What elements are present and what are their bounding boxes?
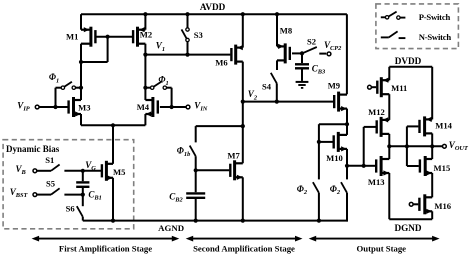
- wire M10 source lead: [346, 149, 348, 166]
- wire M12 gate riser: [363, 127, 365, 166]
- label AGND: [158, 223, 184, 233]
- terminal VB: [33, 169, 37, 173]
- wire tail riser: [112, 125, 114, 164]
- switch phi1b: [190, 146, 196, 157]
- second stage arrow: [186, 236, 303, 242]
- node M5-AGND junction: [111, 219, 115, 223]
- wire phi1b lower lead: [195, 156, 197, 170]
- switch S2: [304, 47, 327, 54]
- wire CB3 upper lead: [301, 53, 303, 63]
- svg-text:P-Switch: P-Switch: [419, 12, 451, 22]
- output stage arrow: [309, 236, 440, 242]
- label N-Switch: [419, 32, 452, 42]
- node phi2-left AGND junction: [317, 219, 321, 223]
- label S4: [262, 82, 272, 92]
- svg-text:Output Stage: Output Stage: [357, 243, 407, 253]
- wire M1-M2 gate line: [95, 36, 133, 38]
- svg-text:M4: M4: [137, 102, 150, 112]
- wire M7 gate lead: [196, 169, 230, 171]
- svg-text:M9: M9: [328, 81, 340, 91]
- wire AVDD right drop: [346, 14, 348, 94]
- wire M3 source: [80, 114, 82, 125]
- wire M4 gate lead: [160, 106, 186, 108]
- wire phi2-left upper lead: [318, 142, 320, 180]
- wire M10 source to riser: [347, 165, 364, 167]
- terminal VIP: [35, 105, 39, 109]
- label V2: [248, 89, 258, 101]
- transistor M1: [81, 27, 95, 47]
- node CB2-AGND junction: [194, 219, 198, 223]
- label P-Switch: [419, 12, 451, 22]
- terminal VOUT: [443, 144, 447, 148]
- label M7: [227, 150, 240, 160]
- transistor M13: [376, 156, 389, 176]
- node phi1-left drain junction: [79, 86, 83, 90]
- node AVDD-M6 junction: [241, 12, 245, 16]
- label M10: [326, 153, 343, 163]
- label phi1 left: [49, 72, 59, 84]
- svg-text:AGND: AGND: [158, 223, 184, 233]
- transistor M11: [377, 77, 389, 97]
- wire CB1 lower lead: [82, 188, 84, 195]
- wire M11 source: [388, 67, 390, 80]
- wire M2 drain column: [144, 44, 146, 100]
- transistor M12: [377, 117, 390, 137]
- transistor M4: [145, 97, 157, 117]
- wire VG lead: [83, 170, 101, 172]
- wire phi1-left riser: [56, 88, 62, 107]
- wire DGND rail: [389, 218, 432, 220]
- capacitor CB2: [186, 193, 205, 197]
- wire phi1-right to drain: [145, 87, 150, 89]
- label phi2 left: [297, 184, 308, 196]
- node M7-AGND junction: [241, 219, 245, 223]
- wire M12 gate lead: [364, 126, 376, 128]
- wire M15 drain: [431, 146, 433, 159]
- node riser junction: [362, 164, 366, 168]
- label Second Amplification Stage: [193, 243, 295, 253]
- switch S3: [182, 28, 190, 42]
- svg-text:S6: S6: [66, 204, 76, 214]
- legend P-switch symbol: [381, 12, 406, 20]
- node AVDD-M8 junction: [275, 12, 279, 16]
- node branch junction: [241, 124, 245, 128]
- wire M14 gate riser: [406, 126, 408, 166]
- transistor M3: [69, 97, 81, 117]
- node M1 drain-gate junction: [79, 60, 83, 64]
- transistor M10: [334, 132, 347, 152]
- wire S3 lower lead: [187, 42, 189, 55]
- wire phi1-right riser: [167, 88, 172, 107]
- label S2: [307, 37, 316, 47]
- wire M6 drain column: [242, 62, 244, 164]
- switch phi2 right: [341, 182, 347, 193]
- node phi1-right drain junction: [143, 86, 147, 90]
- wire AGND rail: [83, 220, 348, 222]
- svg-text:S2: S2: [307, 37, 316, 47]
- label phi2 right: [330, 184, 341, 196]
- wire branch to phi1b: [196, 126, 243, 142]
- transistor M2: [133, 27, 145, 47]
- svg-text:S1: S1: [45, 155, 54, 165]
- label S5: [46, 179, 55, 189]
- transistor M9: [334, 92, 347, 112]
- wire M13 source: [388, 173, 390, 219]
- label VOUT: [449, 140, 469, 152]
- svg-text:AVDD: AVDD: [200, 2, 226, 12]
- label V1: [156, 41, 165, 53]
- wire M1 diode loop: [81, 37, 108, 62]
- switch S1: [51, 165, 60, 171]
- label M4: [137, 102, 150, 112]
- node AVDD-S3 junction: [185, 12, 189, 16]
- wire M14 gate lead: [407, 125, 419, 127]
- wire VIP lead: [39, 106, 67, 108]
- terminal M16 gate: [409, 202, 413, 206]
- wire CB3 lower lead: [301, 70, 303, 81]
- node VOUT-mid junction: [405, 144, 409, 148]
- node V2-left junction: [241, 100, 245, 104]
- node VG junction: [81, 169, 85, 173]
- wire S5 right lead: [64, 194, 82, 196]
- label M5: [113, 167, 125, 177]
- label S3: [194, 30, 203, 40]
- wire tail line: [81, 124, 145, 126]
- wire node VOUT: [389, 145, 442, 147]
- node V1 junction: [143, 53, 147, 57]
- svg-text:M12: M12: [368, 107, 385, 117]
- svg-text:M1: M1: [66, 32, 78, 42]
- terminal VIN: [186, 105, 190, 109]
- label VIP: [17, 100, 30, 112]
- wire S1 right lead: [64, 170, 82, 172]
- wire M5 source: [112, 178, 114, 221]
- svg-text:M11: M11: [391, 83, 407, 93]
- wire M4 source: [144, 114, 146, 125]
- svg-text:M8: M8: [280, 25, 293, 35]
- node phi1-right gate junction: [170, 105, 174, 109]
- svg-text:DVDD: DVDD: [395, 56, 422, 66]
- label M11: [391, 83, 407, 93]
- wire S6 upper lead: [82, 195, 84, 207]
- switch phi1 right: [151, 82, 167, 90]
- label M14: [435, 120, 452, 130]
- label M15: [434, 163, 451, 173]
- legend dashed box: [376, 4, 459, 49]
- wire M14 drain: [431, 133, 433, 146]
- legend N-switch symbol: [381, 31, 406, 38]
- node tail junction: [111, 123, 115, 127]
- wire M13 gate lead: [364, 165, 375, 167]
- svg-text:S5: S5: [46, 179, 55, 189]
- wire phi1-left to drain: [76, 87, 82, 89]
- wire M8 gate lead: [292, 52, 302, 54]
- svg-text:Second Amplification Stage: Second Amplification Stage: [193, 243, 295, 253]
- wire S1 left lead: [37, 170, 51, 172]
- node M7 gate junction: [194, 168, 198, 172]
- label DVDD: [395, 56, 422, 66]
- node M9-M10 loop junction: [345, 122, 349, 126]
- terminal VCP2: [327, 52, 331, 56]
- label M1: [66, 32, 78, 42]
- svg-text:Dynamic Bias: Dynamic Bias: [6, 144, 60, 154]
- switch S6: [77, 206, 83, 217]
- wire phi2-right lower lead: [346, 193, 348, 222]
- label M16: [434, 201, 451, 211]
- svg-text:S4: S4: [262, 82, 272, 92]
- label VBST: [10, 187, 29, 199]
- wire phi2-left lower lead: [318, 193, 320, 221]
- wire M10 diode loop: [319, 124, 347, 142]
- label AVDD: [200, 2, 226, 12]
- node S3-V1 junction: [185, 53, 189, 57]
- svg-text:M3: M3: [78, 102, 90, 112]
- first stage arrow: [32, 236, 180, 242]
- switch S4: [271, 73, 277, 84]
- label VB: [16, 164, 27, 176]
- node VOUT-left junction: [387, 144, 391, 148]
- capacitor CB1: [76, 182, 89, 186]
- wire M16 source: [431, 211, 433, 219]
- ground symbol: [296, 82, 309, 88]
- label M6: [215, 58, 228, 68]
- wire M1 drain column: [80, 44, 82, 100]
- wire M1 source: [80, 14, 82, 30]
- switch S5: [51, 188, 60, 194]
- label S6: [66, 204, 76, 214]
- label CB2: [169, 191, 183, 203]
- transistor M16: [419, 194, 432, 214]
- transistor M7: [230, 160, 243, 180]
- label M13: [368, 177, 385, 187]
- wire S3 upper lead: [187, 14, 189, 28]
- wire S4 lower lead: [276, 83, 278, 101]
- wire M15-M16 column: [431, 173, 433, 197]
- wire node V2: [243, 101, 333, 103]
- label CB1: [88, 189, 101, 201]
- wire M10 gate lead: [319, 141, 333, 143]
- capacitor CB3: [295, 64, 309, 68]
- node VOUT-right junction: [430, 144, 434, 148]
- wire M13 drain: [388, 146, 390, 159]
- label Output Stage: [357, 243, 407, 253]
- wire CB2 lower lead: [195, 199, 197, 221]
- wire M11 gate lead: [371, 86, 376, 88]
- wire M2 source: [144, 14, 146, 30]
- label DGND: [394, 223, 421, 233]
- node AVDD-M2 junction: [143, 12, 147, 16]
- dynamic bias dashed box: [3, 140, 134, 229]
- label CB3: [312, 63, 326, 75]
- node M10 source junction: [345, 164, 349, 168]
- node M1-M2 gate junction: [106, 35, 110, 39]
- switch phi2 left: [313, 182, 319, 193]
- wire S5 left lead: [37, 194, 51, 196]
- node phi1-left gate junction: [53, 105, 57, 109]
- svg-text:N-Switch: N-Switch: [419, 32, 452, 42]
- wire M14 source: [431, 67, 433, 120]
- wire M16 gate lead: [413, 203, 418, 205]
- svg-text:S3: S3: [194, 30, 203, 40]
- transistor M14: [420, 116, 433, 136]
- wire M9 source column: [346, 109, 348, 135]
- transistor M6: [231, 45, 242, 65]
- wire M7 source: [242, 177, 244, 220]
- label Dynamic Bias: [6, 144, 60, 154]
- terminal M11 gate: [368, 85, 372, 89]
- label VIN: [194, 100, 208, 112]
- svg-text:M16: M16: [434, 201, 451, 211]
- svg-text:M13: M13: [368, 177, 385, 187]
- wire CB1 upper lead: [82, 171, 84, 181]
- wire S6 lower lead: [82, 217, 84, 221]
- svg-text:M15: M15: [434, 163, 451, 173]
- svg-text:First Amplification Stage: First Amplification Stage: [59, 243, 152, 253]
- label S1: [45, 155, 54, 165]
- wire M6 source: [242, 14, 244, 47]
- label M8: [280, 25, 293, 35]
- node CB1-S5 junction: [81, 193, 85, 197]
- label M9: [328, 81, 340, 91]
- wire M8 drain lead: [276, 60, 278, 70]
- node M8 gate junction: [300, 51, 304, 55]
- svg-text:M10: M10: [326, 153, 343, 163]
- transistor M8: [277, 43, 290, 63]
- wire CB2 upper lead: [195, 170, 197, 192]
- svg-text:M2: M2: [140, 30, 152, 40]
- svg-text:M5: M5: [113, 167, 125, 177]
- label phi1 right: [158, 75, 168, 87]
- label VG: [85, 160, 96, 172]
- label First Amplification Stage: [59, 243, 152, 253]
- svg-text:M6: M6: [215, 58, 228, 68]
- svg-text:M7: M7: [227, 150, 240, 160]
- terminal VBST: [33, 193, 37, 197]
- wire M12 drain: [388, 134, 390, 146]
- wire phi2-right upper lead: [346, 166, 348, 180]
- label VCP2: [324, 40, 342, 52]
- transistor M15: [420, 156, 432, 176]
- label M2: [140, 30, 152, 40]
- wire M11-M12 column: [388, 94, 390, 120]
- wire node V1: [145, 54, 230, 56]
- node S4-V2 junction: [275, 100, 279, 104]
- label phi1b: [177, 146, 191, 158]
- wire DVDD rail: [389, 66, 432, 68]
- svg-text:M14: M14: [435, 120, 452, 130]
- label M3: [78, 102, 90, 112]
- wire AVDD rail: [81, 13, 347, 15]
- wire M15 gate lead: [407, 165, 419, 167]
- label M12: [368, 107, 385, 117]
- node M10 gate junction: [317, 140, 321, 144]
- transistor M5: [102, 161, 113, 181]
- wire M8 source: [276, 14, 278, 46]
- switch phi1 left: [61, 82, 75, 90]
- svg-text:DGND: DGND: [394, 223, 421, 233]
